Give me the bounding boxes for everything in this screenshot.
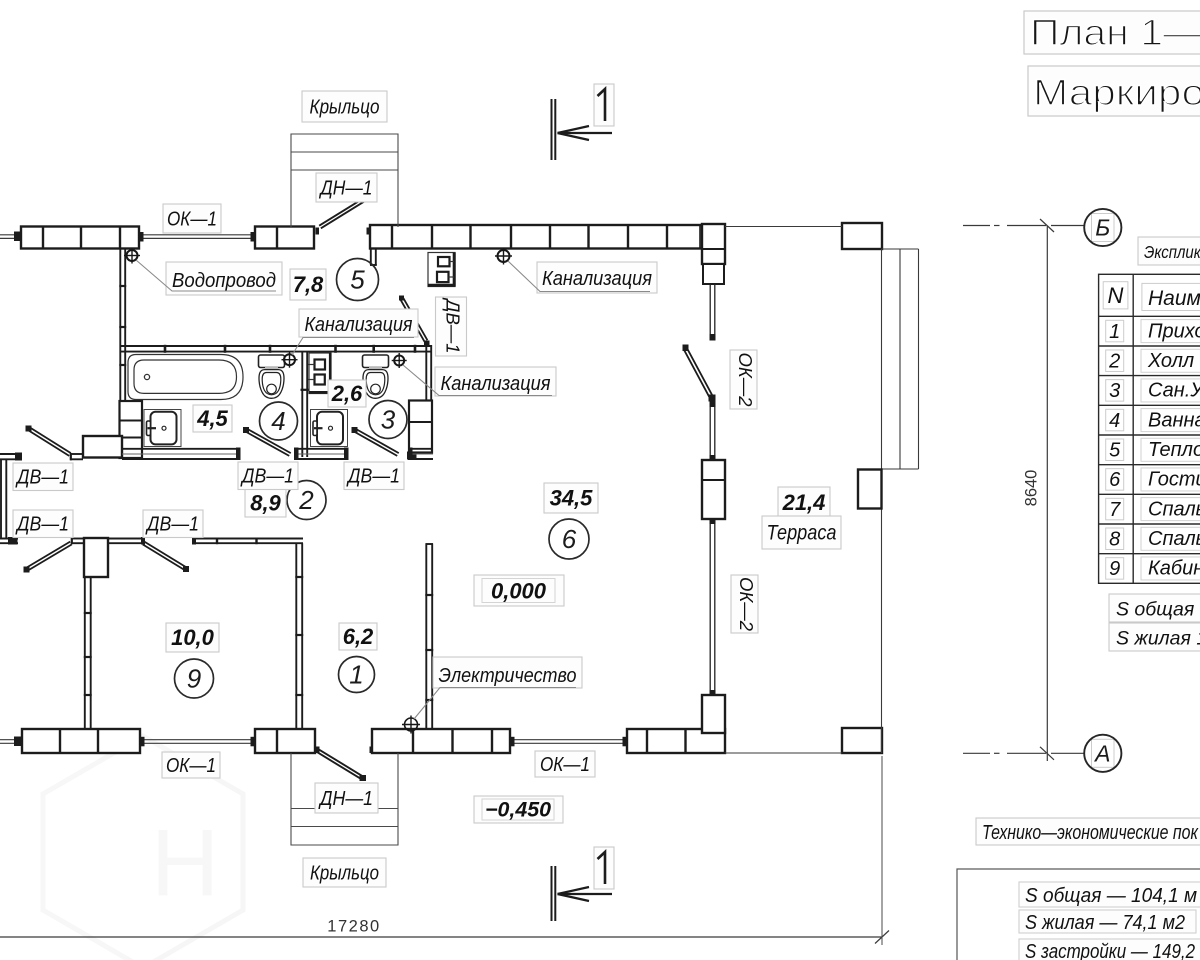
svg-text:8640: 8640 [1023,470,1041,507]
svg-text:8: 8 [1109,528,1120,550]
svg-text:Канализация: Канализация [441,372,551,395]
svg-text:S жилая 1: S жилая 1 [1116,628,1200,650]
svg-text:Терраса: Терраса [767,522,837,545]
svg-text:2: 2 [298,485,314,515]
svg-text:4,5: 4,5 [196,406,228,431]
svg-text:План 1—: План 1— [1030,12,1200,53]
svg-text:Крыльцо: Крыльцо [310,861,379,884]
svg-text:Маркиро: Маркиро [1033,72,1200,113]
svg-text:Электричество: Электричество [439,664,577,687]
svg-text:ДВ—1: ДВ—1 [346,465,400,488]
svg-text:ОК—2: ОК—2 [735,352,756,407]
svg-text:ОК—1: ОК—1 [166,754,216,777]
svg-text:S застройки — 149,2: S застройки — 149,2 [1025,940,1195,960]
svg-text:Холл: Холл [1147,350,1194,372]
svg-text:Гостиная: Гостиная [1148,469,1200,491]
svg-text:9: 9 [187,664,201,694]
svg-text:7,8: 7,8 [293,272,324,297]
svg-text:6: 6 [562,524,577,554]
svg-text:Канализация: Канализация [305,313,413,336]
svg-text:ДВ—1: ДВ—1 [240,465,294,488]
svg-text:Технико—экономические пок: Технико—экономические пок [982,822,1199,844]
svg-text:ОК—1: ОК—1 [540,753,590,776]
svg-text:3: 3 [381,405,396,435]
svg-text:Крыльцо: Крыльцо [310,95,380,118]
svg-text:6,2: 6,2 [343,624,374,649]
svg-text:−0,450: −0,450 [485,799,551,822]
svg-text:Наименование: Наименование [1148,287,1200,310]
svg-text:Сан.Узел: Сан.Узел [1148,380,1200,402]
svg-text:ОК—1: ОК—1 [167,207,217,230]
svg-text:Тепловой: Тепловой [1148,439,1200,461]
svg-text:8,9: 8,9 [250,490,281,515]
svg-text:2,6: 2,6 [331,381,363,406]
svg-text:ДН—1: ДН—1 [318,787,373,810]
svg-text:5: 5 [350,265,365,295]
svg-text:7: 7 [1109,499,1121,521]
svg-text:Канализация: Канализация [542,267,652,290]
svg-text:17280: 17280 [327,918,380,936]
svg-text:S общая 1: S общая 1 [1116,599,1200,621]
svg-text:Спальня: Спальня [1148,528,1200,550]
svg-text:S жилая — 74,1 м2: S жилая — 74,1 м2 [1025,911,1186,934]
svg-text:1: 1 [1109,321,1120,343]
svg-text:21,4: 21,4 [782,490,826,515]
svg-text:5: 5 [1109,439,1121,461]
svg-text:9: 9 [1109,558,1120,580]
svg-text:4: 4 [271,406,285,436]
svg-text:N: N [1108,283,1124,308]
svg-text:ДВ—1: ДВ—1 [442,297,463,353]
svg-text:ДВ—1: ДВ—1 [15,466,69,489]
svg-text:3: 3 [1109,380,1120,402]
svg-text:4: 4 [1109,410,1120,432]
svg-text:10,0: 10,0 [171,625,215,650]
svg-text:ДВ—1: ДВ—1 [145,513,199,536]
svg-text:34,5: 34,5 [550,485,594,510]
svg-text:ДВ—1: ДВ—1 [15,513,69,536]
svg-text:2: 2 [1108,350,1120,372]
svg-text:Б: Б [1095,215,1110,241]
svg-text:Кабинет: Кабинет [1148,558,1200,580]
svg-text:Экспликация: Экспликация [1144,242,1200,262]
svg-text:Водопровод: Водопровод [172,269,276,292]
svg-text:Спальня: Спальня [1148,498,1200,520]
svg-text:1: 1 [349,660,363,690]
svg-text:А: А [1093,740,1110,766]
svg-text:H: H [151,810,220,916]
svg-text:6: 6 [1109,469,1121,491]
svg-text:Прихожая: Прихожая [1148,320,1200,342]
svg-text:ДН—1: ДН—1 [319,176,373,199]
svg-text:ОК—2: ОК—2 [736,577,757,632]
svg-text:0,000: 0,000 [491,579,547,604]
svg-text:S общая — 104,1 м: S общая — 104,1 м [1025,884,1197,907]
svg-text:Ванна: Ванна [1148,409,1200,431]
